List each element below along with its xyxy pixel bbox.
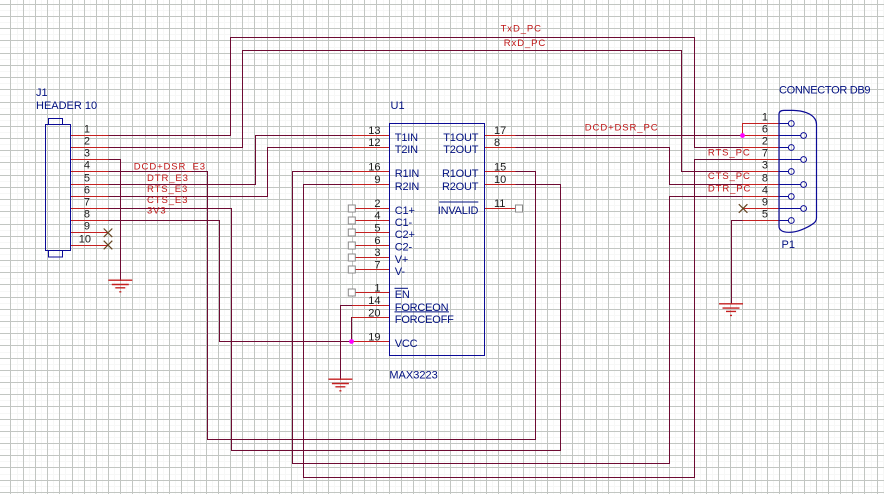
svg-text:T2OUT: T2OUT — [443, 144, 479, 156]
wire net TxD_PC: header pin1 to DB9 pin2 — [109, 38, 743, 148]
svg-text:6: 6 — [374, 235, 380, 247]
DB9 P1 pin stubs — [743, 124, 780, 221]
svg-text:R1IN: R1IN — [395, 168, 420, 180]
svg-text:9: 9 — [762, 197, 768, 209]
svg-text:8: 8 — [494, 137, 500, 149]
DB9 connector P1 body — [779, 110, 817, 232]
svg-text:DTR_PC: DTR_PC — [708, 183, 751, 194]
svg-text:1: 1 — [84, 124, 90, 136]
svg-text:V+: V+ — [395, 254, 408, 266]
IC U1 right pin stubs — [485, 136, 516, 209]
IC U1 left pin stubs — [352, 136, 389, 342]
svg-text:4: 4 — [84, 160, 90, 172]
svg-text:12: 12 — [368, 137, 380, 149]
svg-text:DCD+DSR_PC: DCD+DSR_PC — [585, 122, 659, 133]
svg-text:DCD+DSR_E3: DCD+DSR_E3 — [134, 161, 206, 172]
svg-text:EN: EN — [395, 289, 410, 301]
svg-text:5: 5 — [84, 173, 90, 185]
svg-text:6: 6 — [762, 124, 768, 136]
svg-text:15: 15 — [494, 162, 506, 174]
svg-text:DTR_E3: DTR_E3 — [147, 173, 189, 184]
svg-text:3: 3 — [84, 148, 90, 160]
wire net GND: header pin3 to ground — [109, 160, 121, 281]
junction dot DB9 pin1/pin6 — [740, 133, 745, 138]
wire FORCEON to ground — [341, 306, 353, 380]
wire net DTR_PC: R1IN to DB9 pin4 — [293, 172, 743, 464]
no-connect X on P1 pin 9 — [739, 204, 748, 213]
wire net RTS_PC: R2IN to DB9 pin7 — [304, 160, 743, 478]
square on INVALID pin — [516, 205, 523, 212]
no-connect X on J1 pin 9 — [104, 229, 113, 238]
svg-text:1: 1 — [762, 112, 768, 124]
overbar INVALID — [439, 201, 478, 203]
svg-text:11: 11 — [494, 198, 505, 210]
wire net DCD+DSR_PC: T1OUT to DB9 pins 1,6 — [516, 135, 743, 137]
svg-text:10: 10 — [79, 234, 91, 246]
svg-text:T1OUT: T1OUT — [443, 132, 479, 144]
IC right pin numbers — [494, 125, 506, 210]
svg-text:R2IN: R2IN — [395, 181, 420, 193]
svg-text:9: 9 — [84, 221, 90, 233]
svg-text:10: 10 — [494, 174, 506, 186]
svg-text:2: 2 — [84, 136, 90, 148]
svg-text:9: 9 — [374, 174, 380, 186]
svg-text:U1: U1 — [391, 100, 405, 112]
svg-text:6: 6 — [84, 185, 90, 197]
overbar FORCEOFF — [395, 311, 450, 313]
ground symbol below DB9 pin5 — [719, 304, 743, 316]
svg-text:7: 7 — [762, 148, 768, 160]
ground symbol below FORCEON — [328, 379, 352, 391]
svg-text:HEADER 10: HEADER 10 — [36, 100, 97, 112]
svg-text:17: 17 — [494, 125, 506, 137]
wire DB9 pin1 to pin6 junction — [742, 124, 744, 136]
svg-text:R1OUT: R1OUT — [442, 168, 479, 180]
svg-text:V-: V- — [395, 266, 406, 278]
no-connect X on J1 pin 10 — [104, 241, 113, 250]
svg-text:19: 19 — [368, 332, 380, 344]
IC left pin numbers — [368, 125, 380, 344]
wire net DCD+DSR_E3: header pin4 to R1OUT — [109, 172, 536, 440]
svg-text:FORCEOFF: FORCEOFF — [395, 314, 454, 326]
IC pin names left — [395, 132, 454, 350]
svg-text:20: 20 — [368, 308, 380, 320]
svg-text:RTS_PC: RTS_PC — [708, 148, 751, 159]
svg-text:C1+: C1+ — [395, 205, 415, 217]
svg-text:8: 8 — [762, 173, 768, 185]
wire net RxD_PC: header pin2 to DB9 pin3 — [109, 51, 743, 172]
wire net 3V3: header pin8 to VCC pin19 — [109, 221, 353, 342]
DB9 pin numbers — [762, 112, 768, 221]
svg-text:CTS_PC: CTS_PC — [708, 171, 751, 182]
svg-text:P1: P1 — [782, 239, 795, 251]
svg-text:INVALID: INVALID — [438, 205, 479, 217]
svg-text:C2+: C2+ — [395, 229, 415, 241]
no-connect squares on IC left pins — [348, 205, 522, 296]
svg-text:CONNECTOR DB9: CONNECTOR DB9 — [779, 85, 870, 97]
svg-text:TxD_PC: TxD_PC — [501, 24, 542, 35]
svg-text:13: 13 — [368, 125, 380, 137]
svg-text:C1-: C1- — [395, 217, 413, 229]
header J1 pin stubs 1-10 — [71, 136, 109, 246]
svg-text:8: 8 — [84, 209, 90, 221]
svg-text:7: 7 — [84, 197, 90, 209]
svg-text:2: 2 — [374, 198, 380, 210]
svg-text:VCC: VCC — [395, 338, 418, 350]
svg-text:3V3: 3V3 — [147, 205, 167, 216]
svg-text:MAX3223: MAX3223 — [389, 370, 437, 382]
svg-text:C2-: C2- — [395, 242, 413, 254]
IC U1 body — [390, 124, 485, 356]
svg-text:4: 4 — [374, 210, 380, 222]
svg-text:16: 16 — [368, 162, 380, 174]
svg-text:7: 7 — [374, 260, 380, 272]
svg-text:J1: J1 — [36, 87, 48, 99]
svg-text:T1IN: T1IN — [395, 132, 418, 144]
svg-text:RxD_PC: RxD_PC — [504, 38, 546, 49]
svg-text:3: 3 — [762, 160, 768, 172]
svg-text:14: 14 — [368, 295, 380, 307]
svg-text:3: 3 — [374, 247, 380, 259]
svg-text:4: 4 — [762, 185, 768, 197]
svg-text:2: 2 — [762, 136, 768, 148]
svg-text:R2OUT: R2OUT — [442, 181, 479, 193]
junction dot VCC/FORCEOFF — [349, 339, 354, 344]
svg-text:1: 1 — [374, 283, 380, 295]
svg-text:5: 5 — [374, 223, 380, 235]
DB9 pin lines and circles — [779, 121, 806, 224]
wire net CTS_E3: header pin7 to R2OUT — [109, 185, 561, 451]
wire FORCEOFF to VCC — [352, 318, 353, 342]
ground symbol below header pin3 — [108, 280, 132, 292]
svg-text:RTS_E3: RTS_E3 — [147, 184, 188, 195]
wire net CTS_PC: T2OUT to DB9 pin8 — [516, 148, 743, 185]
wire net RTS_E3: header pin6 to T2IN — [109, 148, 353, 197]
svg-text:CTS_E3: CTS_E3 — [147, 195, 188, 206]
wire DB9 pin5 to ground — [732, 221, 743, 304]
header J1 body — [46, 119, 71, 258]
IC pin names right — [438, 132, 479, 217]
svg-text:T2IN: T2IN — [395, 144, 418, 156]
svg-text:5: 5 — [762, 209, 768, 221]
overbar EN — [395, 287, 409, 289]
wire net DTR_E3: header pin5 to T1IN — [109, 136, 353, 185]
